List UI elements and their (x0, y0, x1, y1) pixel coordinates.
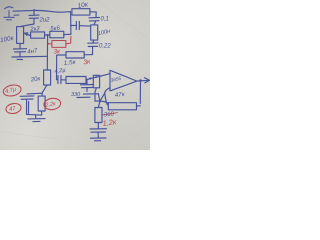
input jack J1 (shield arc + ground) (4, 7, 19, 20)
svg-text:2u2: 2u2 (39, 18, 51, 24)
wire node B down to R8 20k (46, 35, 48, 70)
resistor R7 (66, 77, 90, 84)
ground G3 (28, 119, 45, 122)
ellipse around 2,2k (43, 97, 61, 110)
capacitor C1 2u2 (20, 11, 39, 27)
svg-text:330: 330 (71, 92, 81, 98)
node A (33, 9, 35, 11)
capacitor C6 4,2u (57, 76, 67, 84)
wire -input (100, 88, 110, 101)
feedback wire down (139, 81, 141, 104)
wire N1 to 47k left lead (100, 101, 108, 104)
node C (89, 77, 91, 79)
capacitor C2 4n7 (14, 43, 27, 56)
resistor R11 47k (105, 93, 141, 110)
resistor R13 3k (red, parallel to 5k6) (47, 37, 71, 48)
svg-text:3к: 3к (54, 49, 61, 56)
svg-text:0,22: 0,22 (99, 44, 111, 50)
capacitor C8 (90, 129, 106, 138)
ellipse around 4,7u (2, 83, 22, 97)
svg-text:47к: 47к (114, 91, 126, 99)
resistor R5 100n (91, 25, 98, 40)
capacitor C9 4,7u (20, 96, 34, 114)
node B (46, 34, 48, 36)
svg-text:2к2: 2к2 (29, 26, 41, 33)
op-amp U1 (110, 70, 137, 91)
ground G1 (12, 56, 47, 59)
strike through 360 (103, 113, 118, 115)
wire node A to R4 10k (34, 10, 70, 12)
capacitor C5 0,22 (88, 40, 98, 55)
wire to C9/R12 pair (27, 93, 42, 96)
potentiometer R1 100k (17, 27, 31, 44)
wire input to node A (13, 9, 34, 12)
bottom join wire (27, 113, 42, 116)
capacitor C4 0,1 (89, 18, 99, 25)
svg-text:0,1: 0,1 (101, 17, 109, 23)
wire node C to op-amp +input (90, 74, 110, 79)
resistor R9 360 (95, 101, 102, 129)
wire N1 to rail (95, 100, 100, 102)
resistor R3 5k6 (48, 31, 71, 38)
paper background (0, 0, 150, 150)
resistor R2 2k2 (29, 32, 47, 38)
resistor R10 (small box at -input branch) (93, 75, 99, 101)
node OUT (139, 79, 141, 81)
capacitor C3 (junction x71 to divider chain) (70, 22, 90, 30)
svg-text:1,5к: 1,5к (63, 59, 76, 67)
resistor R4 10k (72, 9, 96, 18)
resistor R8 20k (42, 70, 50, 93)
ellipse around 47 (5, 102, 22, 114)
resistor R12 2,2k (38, 96, 45, 115)
ground G2 (90, 138, 106, 141)
resistor R6 1,5k (57, 52, 93, 58)
svg-text:5к6: 5к6 (50, 26, 61, 33)
capacitor C7 330 (77, 79, 99, 97)
node N1 (99, 100, 101, 102)
output wire + arrow (137, 78, 150, 83)
wire down x56.6 (56, 55, 58, 80)
wire vertical x71 (R4 left node down to R3) (70, 12, 72, 35)
